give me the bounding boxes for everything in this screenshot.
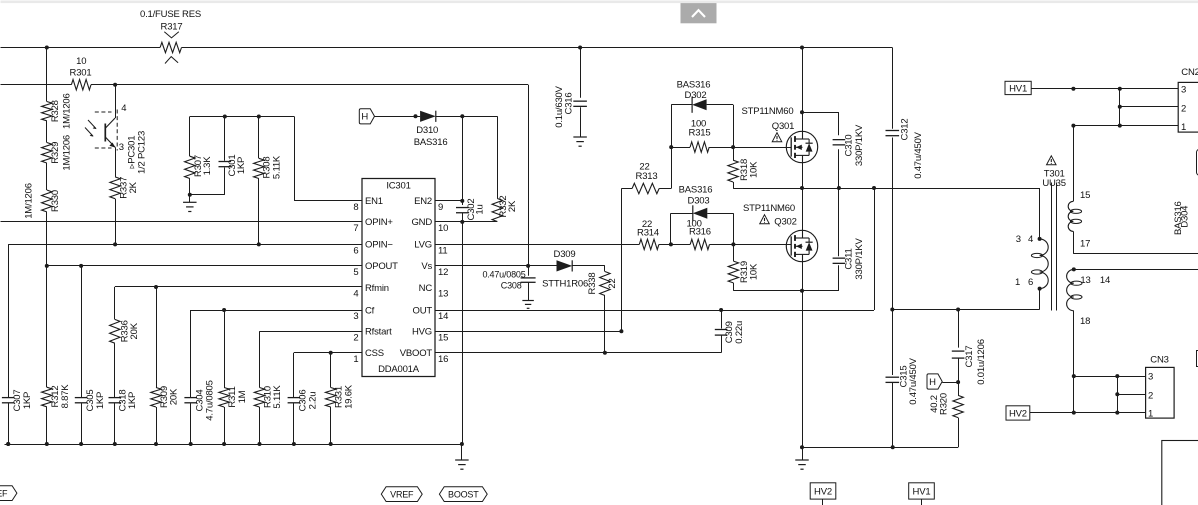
wire 17 line (1073, 253, 1198, 255)
node H tap junction (956, 380, 960, 384)
label T301 pins 3 4 (1016, 234, 1033, 245)
svg-text:20K: 20K (169, 388, 180, 405)
resistor R332 2K (492, 199, 502, 222)
node switch bus / C310 (837, 186, 841, 190)
label C310 value (854, 124, 865, 166)
node primary return / C317 (956, 308, 960, 312)
label PC301 pin 3 (119, 142, 124, 153)
IC301 pin number 12 (438, 267, 448, 278)
box bottom right (1162, 441, 1198, 505)
svg-text:Q302: Q302 (774, 217, 796, 228)
IC301 right pin name OUT (413, 305, 433, 316)
wire HV1 to CN2 pin 3 (1031, 88, 1178, 90)
wire C311 upper (838, 188, 840, 256)
diode D310 BAS316 (420, 111, 436, 122)
label C305 (85, 390, 96, 412)
svg-text:3: 3 (1181, 85, 1186, 96)
label C306 value (308, 392, 319, 410)
wire HVG pin 15 (435, 331, 621, 333)
ground symbol main (455, 444, 469, 469)
wire EN2 riser (462, 116, 464, 205)
wire Rfstart pin 2 bus (260, 331, 363, 333)
svg-text:Rfstart: Rfstart (365, 327, 392, 338)
node top bus / C316 junction (578, 46, 582, 50)
svg-text:3: 3 (119, 142, 124, 153)
wire HVG to R313 (621, 188, 632, 190)
label D303 BAS316 (679, 184, 713, 195)
resistor R310 5.11K (254, 388, 264, 408)
svg-text:D310: D310 (416, 125, 438, 136)
resistor R311 1M (219, 388, 229, 408)
node CN3 tie top (1115, 374, 1119, 378)
label D304 (1179, 206, 1190, 228)
node primary pin 1 6 (1038, 287, 1042, 291)
wire C310 lower (838, 149, 840, 188)
resistor R315 100 (690, 142, 709, 152)
node Q302 source junction (800, 289, 804, 293)
label Q301 (772, 121, 794, 132)
svg-text:19.6K: 19.6K (343, 384, 354, 409)
IC301 left pin name Rfstart (365, 327, 392, 338)
resistor R314 22 (639, 239, 659, 249)
node rail / C307 (6, 442, 10, 446)
svg-text:R316: R316 (689, 227, 711, 238)
svg-text:1M/1206: 1M/1206 (62, 135, 73, 171)
wire R313 to riser (659, 188, 671, 190)
label C302 value (475, 204, 486, 214)
wire ground rail right (802, 447, 958, 449)
svg-text:R313: R313 (636, 171, 658, 182)
capacitor C308 0.47u/0805 (521, 266, 536, 282)
wire mains bus R301 to Vs riser (91, 84, 528, 86)
label CN2 (1181, 67, 1198, 78)
diode D303 BAS316 (693, 205, 708, 221)
resistor R317 0.1/FUSE RES (160, 32, 181, 64)
wire R308 top (258, 117, 260, 159)
wire D303 left riser (670, 213, 672, 244)
svg-text:1.3K: 1.3K (202, 156, 213, 176)
wire C311 lower (838, 265, 840, 291)
label STTH1R06 (542, 279, 588, 290)
svg-text:OPOUT: OPOUT (365, 261, 398, 272)
label R318 (739, 159, 750, 181)
node R309 ground (154, 442, 158, 446)
capacitor C317 0.01u/1206 (952, 351, 965, 358)
svg-text:1: 1 (1015, 277, 1020, 288)
label CN2 pin 1 (1181, 122, 1186, 133)
wire R315 to Q301 gate (709, 147, 791, 149)
svg-text:3: 3 (1148, 372, 1153, 383)
connector CN2 (1178, 82, 1198, 132)
svg-text:BAS316: BAS316 (679, 184, 713, 195)
net tag VREF (381, 487, 422, 502)
label D310 BAS316 (414, 137, 448, 148)
svg-text:D304: D304 (1179, 206, 1190, 228)
wire Q302 drain (802, 188, 804, 230)
label C316 (564, 93, 575, 115)
capacitor C306 2.2u (288, 398, 301, 403)
svg-text:C317: C317 (964, 346, 975, 368)
wire C308 to ground (528, 282, 530, 300)
svg-text:R330: R330 (50, 190, 61, 212)
wire Q301 source (802, 163, 804, 188)
wire C316 bottom (580, 107, 582, 137)
IC301 left pin name Cf (365, 305, 375, 316)
IC301 right pin name EN2 (414, 196, 432, 207)
node primary return / C312 (890, 308, 894, 312)
wire D303 right riser (733, 213, 735, 244)
wire R338 top (604, 266, 606, 272)
label C307 value (22, 392, 33, 409)
label C315 value (908, 357, 919, 404)
wire R309 bottom (156, 407, 158, 444)
wire R319 top (733, 244, 735, 261)
winding T301 secondary 13-18 (1067, 269, 1082, 310)
wire C304 top (190, 310, 192, 397)
node mains bus / PC301 junction (113, 83, 117, 87)
IC301 pin number 13 (438, 289, 448, 300)
wire OPIN- pin 6 bus (8, 244, 362, 246)
wire primary return bus (892, 309, 1039, 311)
wire R330 to OPIN+ bus (46, 212, 48, 222)
svg-text:CSS: CSS (365, 348, 384, 359)
wire R313 riser up (671, 105, 673, 189)
label C311 (844, 248, 855, 269)
label R316 value 100 (686, 219, 701, 230)
label C302 (466, 199, 477, 221)
node Vs junction (526, 264, 530, 268)
wire secondary2 tail (1073, 311, 1075, 413)
wire R338 to VBOOT (604, 296, 606, 353)
wire D303 cathode side (707, 213, 733, 215)
warning symbol Q301 (772, 133, 782, 142)
svg-text:R301: R301 (70, 68, 92, 79)
capacitor C310 330P/1KV (833, 140, 846, 145)
svg-text:R314: R314 (637, 227, 659, 238)
wire R314 to R316 (659, 244, 690, 246)
node 13 14 junction (1072, 267, 1076, 271)
wire H flag to tap (942, 382, 958, 384)
wire OUT riser to switch bus (874, 188, 876, 310)
svg-text:0.22u: 0.22u (734, 321, 745, 344)
wire R332 top (497, 116, 499, 198)
label C312 (900, 119, 911, 141)
wire ground rail left (5, 444, 462, 446)
svg-text:D302: D302 (685, 90, 707, 101)
label CN3 (1150, 355, 1168, 366)
label UU35 (1042, 178, 1066, 189)
svg-text:4.7u/0805: 4.7u/0805 (205, 380, 216, 420)
label C305 value (95, 392, 106, 409)
svg-text:5: 5 (353, 267, 358, 278)
svg-text:4: 4 (121, 103, 126, 114)
label R330 value (24, 183, 35, 219)
wire R336 to C318 (114, 343, 116, 397)
node top bus / Q301 drain junction (800, 46, 804, 50)
wire CN2 pin 1 (1073, 125, 1178, 127)
resistor R312 8.87K (42, 387, 52, 407)
label R330 (50, 190, 61, 212)
wire EN1 net horizontal (190, 116, 294, 118)
label C308 value (482, 270, 525, 280)
wire R307 top (189, 117, 191, 157)
wire CSS pin 1 bus (294, 352, 362, 354)
IC301 right pin name Vs (421, 261, 432, 272)
svg-text:CN2: CN2 (1181, 67, 1198, 78)
label R332 value (507, 200, 518, 212)
label C317 (964, 346, 975, 368)
svg-text:330P/1KV: 330P/1KV (854, 238, 865, 280)
svg-text:4: 4 (1028, 234, 1033, 245)
label R319 (739, 261, 750, 283)
svg-text:10: 10 (438, 223, 448, 234)
net tag HV1 (1005, 81, 1031, 94)
net tag BOOST (439, 487, 487, 502)
wire R336 top (114, 287, 116, 319)
scroll-top button (681, 3, 717, 23)
svg-text:HV1: HV1 (913, 486, 931, 497)
wire OPIN+ pin 7 bus (1, 221, 363, 223)
wire C312 bottom (892, 138, 894, 310)
wire top bus left of R317 (1, 47, 161, 49)
svg-text:8.87K: 8.87K (60, 384, 71, 409)
IC301 left pin name OPOUT (365, 261, 398, 272)
svg-text:D309: D309 (554, 249, 576, 260)
wire C310 top link (802, 112, 839, 114)
IC301 pin number 16 (438, 354, 448, 365)
label R328 value (62, 93, 73, 129)
label R314 (637, 227, 659, 238)
svg-text:10K: 10K (749, 161, 760, 178)
resistor R337 2K (110, 177, 120, 199)
svg-text:5.11K: 5.11K (272, 155, 283, 179)
net flag fragment right edge (1197, 149, 1198, 175)
label IC301 (386, 180, 410, 191)
wire R310 bottom (259, 407, 261, 444)
net flag H (R320) (927, 374, 942, 389)
label R338 (587, 273, 598, 295)
capacitor C307 1KP (2, 398, 15, 403)
wire D302 right riser (733, 105, 735, 147)
wire secondary1 riser (1073, 126, 1075, 202)
label R317 (161, 21, 183, 32)
IC301 left pin name OPIN&#8722; (365, 240, 393, 251)
wire primary bottom (1039, 289, 1041, 310)
label 0.1/FUSE RES (140, 9, 201, 20)
label T301 pin 15 (1080, 190, 1090, 201)
wire EN1 riser (294, 117, 296, 201)
IC301 left pin name CSS (365, 348, 384, 359)
node divider / OPOUT junction (45, 264, 49, 268)
svg-text:6: 6 (353, 245, 358, 256)
IC301 pin number 5 (353, 267, 358, 278)
node top bus / divider junction (45, 46, 49, 50)
label R336 value (129, 322, 140, 339)
svg-text:15: 15 (1080, 190, 1090, 201)
wire CN3 pin 2 (1117, 394, 1145, 396)
svg-text:0.47u/450V: 0.47u/450V (913, 131, 924, 178)
wire CN2 pin 2 (1120, 106, 1178, 108)
node rail / Q302 source (800, 445, 804, 449)
svg-text:HV2: HV2 (1009, 408, 1027, 419)
wire EN2 pin 9 (435, 200, 462, 202)
wire C305 top (81, 266, 83, 397)
label R308 (262, 157, 273, 179)
label R315 value 100 (691, 119, 706, 130)
wire C301 bottom (224, 168, 226, 195)
wire C317 top (958, 310, 960, 348)
resistor R329 1M/1206 (42, 143, 52, 164)
label R314 value 22 (642, 219, 652, 230)
label R316 (689, 227, 711, 238)
resistor R313 22 (632, 183, 659, 193)
wire C301 top (224, 117, 226, 161)
wire C318 bottom (114, 403, 116, 444)
label Q301 STP11NM60 (742, 106, 794, 117)
svg-text:BAS316: BAS316 (414, 137, 448, 148)
svg-text:STTH1R06: STTH1R06 (542, 279, 588, 290)
svg-text:R320: R320 (939, 393, 950, 415)
svg-text:D303: D303 (688, 195, 710, 206)
svg-text:VBOOT: VBOOT (400, 348, 433, 359)
connector CN3 (1146, 367, 1175, 418)
winding T301 primary (1031, 239, 1048, 289)
wire PC301 emitter to R337 (115, 147, 117, 177)
transistor Q301 STP11NM60 (786, 131, 817, 162)
label R329 value (62, 135, 73, 171)
label R331 (334, 386, 345, 408)
wire D309 to R338 (572, 265, 605, 267)
node R338 / VBOOT junction (603, 351, 607, 355)
node CN2 pin1 / winding riser (1071, 124, 1075, 128)
net flag H (D310) (359, 109, 374, 124)
IC301 pin number 3 (353, 311, 358, 322)
capacitor C316 0.1u/630V (573, 101, 587, 106)
label R313 (636, 171, 658, 182)
wire divider to R312 (46, 222, 48, 387)
svg-text:LVG: LVG (414, 240, 432, 251)
ground symbol C308 (522, 301, 533, 309)
wire Cf pin 3 bus (191, 310, 362, 312)
svg-text:8: 8 (353, 202, 358, 213)
wire GND pin 10 (435, 221, 497, 223)
node CN3 net pin 3 (1072, 374, 1076, 378)
label D303 (688, 195, 710, 206)
svg-text:H: H (361, 112, 368, 123)
node GND / C302 junction (460, 220, 464, 224)
svg-text:1KP: 1KP (95, 392, 106, 409)
svg-text:R317: R317 (161, 21, 183, 32)
node R337 / OPIN- junction (113, 242, 117, 246)
resistor R336 20K (110, 319, 120, 343)
svg-text:HVG: HVG (412, 327, 432, 338)
wire top bus R317 to C312 (182, 47, 893, 49)
node R308 / OPIN- junction (257, 242, 261, 246)
IC301 right pin name GND (411, 217, 432, 228)
wire OPOUT pin 5 bus (47, 265, 362, 267)
svg-text:STP11NM60: STP11NM60 (742, 106, 794, 117)
top gray strip (1, 1, 1198, 4)
label R336 (120, 320, 131, 342)
label R337 value (128, 181, 139, 193)
label C308 (501, 281, 522, 291)
node R315 feed junction (669, 145, 673, 149)
node R307 ground junction (188, 193, 192, 197)
wire IC ground drop (462, 222, 464, 444)
node CN2 net A (1071, 87, 1075, 91)
svg-text:10K: 10K (749, 263, 760, 280)
svg-text:NC: NC (419, 283, 433, 294)
svg-text:22: 22 (607, 278, 618, 288)
IC301 pin number 2 (353, 332, 358, 343)
wire secondary1 bottom (1073, 231, 1075, 253)
svg-text:6: 6 (1028, 277, 1033, 288)
wire Vs riser (528, 85, 530, 266)
svg-text:4: 4 (353, 289, 358, 300)
svg-text:3: 3 (353, 311, 358, 322)
svg-text:0.01u/1206: 0.01u/1206 (976, 339, 987, 385)
resistor R316 100 (690, 239, 709, 249)
svg-text:Vs: Vs (421, 261, 432, 272)
wire C310 upper (838, 112, 840, 135)
label R307 (193, 155, 204, 177)
label Q302 (774, 217, 796, 228)
wire R316 to Q302 gate (710, 244, 792, 246)
label C318 (117, 390, 128, 412)
capacitor C302 1u (456, 208, 469, 213)
wire H flag to D310 (375, 116, 421, 118)
svg-text:STP11NM60: STP11NM60 (743, 203, 795, 214)
label C301 (227, 155, 238, 177)
wire C317 to H tap (958, 358, 960, 382)
svg-text:C311: C311 (844, 248, 855, 269)
svg-text:OPIN+: OPIN+ (365, 217, 393, 228)
wire R328-R329 (46, 121, 48, 143)
node R331 ground (329, 442, 333, 446)
resistor R318 10K (728, 160, 738, 182)
net tag VREF partial (0, 486, 17, 501)
svg-text:1: 1 (1181, 122, 1186, 133)
label C301 value (236, 157, 247, 174)
capacitor C311 330P/1KV (833, 258, 846, 263)
wire PC301 collector (115, 85, 117, 118)
svg-text:C308: C308 (501, 281, 522, 291)
capacitor C301 1KP (219, 162, 232, 167)
node CN3 tie pin 2 (1115, 392, 1119, 396)
svg-text:OUT: OUT (413, 305, 433, 316)
label R319 value (749, 263, 760, 280)
svg-text:0.47u/0805: 0.47u/0805 (482, 270, 525, 280)
label C307 (12, 390, 23, 412)
node CSS / R331 junction (329, 351, 333, 355)
label DDA001A (378, 364, 420, 375)
label CN2 pin 3 (1181, 85, 1186, 96)
label C316 value (554, 85, 565, 127)
IC301 pin number 10 (438, 223, 448, 234)
label C318 value (127, 392, 138, 409)
node Q302 gate junction (731, 242, 735, 246)
svg-text:9: 9 (438, 202, 443, 213)
node LVG / D303 junction (669, 242, 673, 246)
resistor R320 40.2 (953, 395, 963, 417)
wire Q302 source to ground (802, 291, 804, 448)
svg-text:VREF: VREF (390, 489, 414, 499)
svg-text:R338: R338 (587, 273, 598, 295)
label T301 pin 18 (1080, 316, 1090, 327)
IC301 right pin name VBOOT (400, 348, 433, 359)
wire C312 top (892, 48, 894, 129)
node CN3 tie pin 1 (1115, 411, 1119, 415)
